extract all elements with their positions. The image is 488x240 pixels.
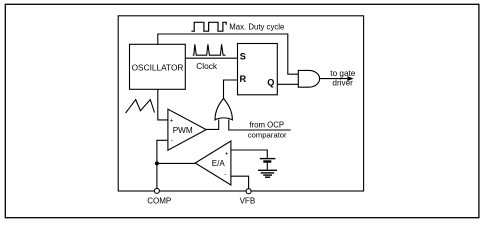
OR gate U3 (points up) — [215, 98, 232, 120]
wire: E/A output to junction — [157, 162, 195, 164]
svg-text:S: S — [240, 51, 246, 61]
AND gate U4 — [298, 70, 319, 87]
VFB pin terminal — [246, 189, 251, 194]
wire: junction up to PWM - input — [157, 140, 168, 163]
svg-text:-: - — [171, 137, 173, 144]
oscillator block U_OSC — [130, 44, 186, 89]
svg-text:PWM: PWM — [173, 126, 193, 135]
IC internal block boundary box — [118, 16, 363, 191]
svg-text:Max. Duty cycle: Max. Duty cycle — [229, 22, 284, 31]
COMP pin terminal — [154, 188, 159, 193]
wire: AND output with arrow — [320, 78, 348, 80]
svg-text:R: R — [240, 74, 247, 84]
arrowhead — [347, 76, 353, 81]
wire: PWM output to OR gate left input — [206, 120, 219, 130]
reference cell V_REF long plate — [260, 158, 276, 160]
wire: E/A + input to reference — [231, 150, 267, 158]
svg-text:to gate: to gate — [330, 69, 355, 78]
wire: OR gate output to latch R input — [224, 80, 238, 98]
SR latch U1 — [238, 44, 278, 95]
wire: OCP stub to OR gate right input — [229, 120, 291, 131]
svg-text:VFB: VFB — [240, 197, 256, 206]
svg-text:+: + — [170, 118, 174, 125]
wire: oscillator clock output to latch S input — [185, 57, 237, 59]
sawtooth ramp waveform — [126, 100, 155, 113]
svg-text:-: - — [224, 171, 226, 178]
svg-text:E/A: E/A — [212, 159, 226, 168]
clock pulse waveform — [193, 44, 226, 55]
svg-text:Q: Q — [267, 78, 274, 88]
reference cell short thick plate — [263, 160, 271, 162]
E/A error amplifier U5 (points left) — [195, 141, 231, 185]
ground — [258, 170, 277, 177]
wire: oscillator top to max-duty line to AND top input — [158, 34, 298, 74]
max duty cycle square waveform — [191, 22, 226, 31]
wire: junction down to COMP pin — [156, 163, 158, 188]
junction node — [155, 161, 159, 165]
svg-text:+: + — [225, 151, 229, 158]
svg-text:driver: driver — [332, 79, 353, 88]
svg-text:Clock: Clock — [196, 61, 218, 71]
svg-text:COMP: COMP — [147, 197, 171, 206]
wire: latch Q output to AND bottom input — [277, 83, 298, 85]
svg-text:comparator: comparator — [248, 130, 287, 139]
wire: cell to ground — [266, 163, 268, 171]
PWM comparator U2 — [168, 109, 206, 150]
wire: E/A - input to VFB — [231, 176, 249, 188]
svg-text:OSCILLATOR: OSCILLATOR — [132, 62, 184, 72]
wire: oscillator bottom to PWM + input — [158, 89, 168, 120]
svg-text:from OCP: from OCP — [249, 120, 284, 129]
